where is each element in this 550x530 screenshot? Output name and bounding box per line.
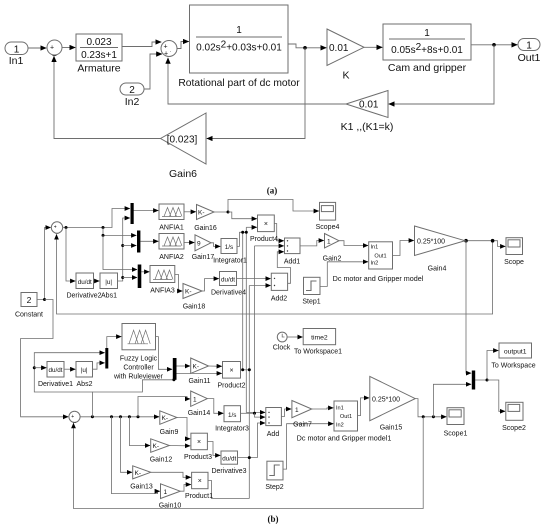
subsystem Dc motor and Gripper model xyxy=(333,242,424,283)
Add2 block xyxy=(271,273,288,302)
svg-text:K-: K- xyxy=(162,415,169,422)
Scope2 block xyxy=(502,402,526,432)
svg-text:K-: K- xyxy=(185,289,192,296)
gain Gain6 triangle xyxy=(161,113,207,180)
wire K1 output to Sum2 bottom xyxy=(168,58,346,104)
wire feedback Gain15 to Sum4 xyxy=(74,417,424,509)
svg-text:1: 1 xyxy=(327,239,331,246)
Scope block xyxy=(504,238,524,266)
svg-text:Out1: Out1 xyxy=(374,254,386,260)
wire V257.5 up into Add in3 xyxy=(258,423,266,458)
wire Step2 to Dc model1 In2 xyxy=(283,424,333,469)
wire Gain16 to Scope4 xyxy=(214,200,319,213)
node Integrator1 join xyxy=(245,231,248,234)
wire Gain2 to Dc model In1 xyxy=(339,241,368,246)
wire riser to Gain14 xyxy=(138,397,190,417)
gain Gain2 xyxy=(323,234,342,263)
svg-text:ANFIA1: ANFIA1 xyxy=(159,225,184,232)
wire Fuzzy out to demux xyxy=(156,337,173,370)
svg-text:Controller: Controller xyxy=(123,365,154,372)
Product4 block xyxy=(250,215,278,243)
Product2 block xyxy=(217,362,245,390)
wire V246.3 to Product4 in2 xyxy=(246,226,256,228)
Clock block xyxy=(273,332,291,351)
wire ANFIA2 to Gain17 xyxy=(184,242,194,244)
svg-text:K1 ,,(K1=k): K1 ,,(K1=k) xyxy=(341,121,394,133)
gain Gain17 xyxy=(192,235,215,261)
ANFIA3 block xyxy=(150,266,175,295)
ANFIA1 block xyxy=(159,204,184,232)
svg-text:(b): (b) xyxy=(268,514,279,524)
Step1 block xyxy=(302,277,320,305)
long vertical net V246.3 Product4 in2 and Add in1 xyxy=(246,227,265,412)
Abs1 block xyxy=(100,273,118,300)
svg-text:[0.023]: [0.023] xyxy=(167,135,198,146)
Constant block xyxy=(15,293,43,319)
time2 To Workspace1 block xyxy=(294,329,342,356)
wire fuzzy mux out to Fuzzy controller xyxy=(107,337,122,348)
wire Gain6 output to Sum1 bottom xyxy=(54,56,161,138)
long vertical net V249.3 Add2 in2 xyxy=(248,286,250,499)
svg-text:Step1: Step1 xyxy=(302,299,320,306)
wire feedback to Sum3 bottom xyxy=(57,234,493,314)
summing junction Sum3 xyxy=(51,222,62,235)
svg-text:1: 1 xyxy=(424,28,430,39)
summing junction Sum1 xyxy=(47,40,62,57)
svg-text:Out1: Out1 xyxy=(340,414,352,420)
node V242.7 top xyxy=(241,231,244,234)
Product1 block xyxy=(185,472,213,500)
wire Integrator1 output joins vertical net xyxy=(237,232,246,246)
svg-text:K-: K- xyxy=(198,210,205,217)
wire Gain11 to Product2 in1 xyxy=(209,365,222,367)
wire Mux3 to ANFIA3 xyxy=(141,271,149,273)
node error branch up xyxy=(91,415,94,418)
node Deriv3 out xyxy=(248,456,251,459)
wire V254.5 corner into Add in2 xyxy=(255,413,266,417)
gain Gain11 xyxy=(188,358,210,385)
svg-text:1: 1 xyxy=(164,489,168,496)
node Sum3 out xyxy=(65,226,68,229)
node on Cam output xyxy=(492,43,496,47)
wire node to Gain6 input xyxy=(207,48,305,139)
node mux out xyxy=(486,379,489,382)
svg-text:K: K xyxy=(342,70,349,82)
wire demux out1 to Gain11 xyxy=(177,365,191,367)
gain Gain15 xyxy=(370,376,415,431)
wire Cam block to Out1 xyxy=(471,44,517,46)
svg-text:1: 1 xyxy=(526,41,532,52)
mux output right xyxy=(472,371,475,390)
gain Gain16 xyxy=(194,205,217,233)
wire Add2 out to Add1 in3 xyxy=(277,252,290,283)
svg-text:du/dt: du/dt xyxy=(221,277,235,284)
wire Product4 out to Add1 in1 xyxy=(274,224,284,241)
svg-text:Gain4: Gain4 xyxy=(428,266,447,273)
Armature transfer function block xyxy=(76,34,122,75)
svg-text:In2: In2 xyxy=(371,261,379,267)
wire Gain15 up to right mux in2 xyxy=(433,384,471,417)
svg-text:+: + xyxy=(164,44,168,51)
wire e down to Mux2 in1 xyxy=(103,228,136,236)
long vertical net V242.7 xyxy=(242,232,244,369)
wire Integrator3 out joins V254.5 xyxy=(241,412,255,414)
wire Cam output down to gain K1 xyxy=(389,45,494,104)
svg-text:In2: In2 xyxy=(125,96,140,108)
svg-text:1: 1 xyxy=(236,25,242,36)
svg-text:Gain10: Gain10 xyxy=(159,502,182,509)
svg-text:Constant: Constant xyxy=(15,312,43,319)
svg-text:Gain12: Gain12 xyxy=(150,457,173,464)
svg-text:Add: Add xyxy=(267,431,280,438)
svg-text:|u|: |u| xyxy=(105,279,112,286)
wire Gain17 to Integrator1 xyxy=(211,243,220,247)
svg-text:K-: K- xyxy=(135,470,142,477)
wire Abs1 net to Mux3 in2 xyxy=(123,277,137,279)
svg-text:2: 2 xyxy=(27,295,32,305)
wire Dc model Out1 to Gain4 xyxy=(393,241,414,256)
svg-text:Scope4: Scope4 xyxy=(316,224,340,231)
wire Step1 to Dc model In2 xyxy=(320,262,368,287)
node Integrator3 join xyxy=(253,412,256,415)
wire Gain18 to Derivative4 xyxy=(202,279,219,291)
Derivative4 block xyxy=(211,272,246,297)
wire Constant to Sum4 (lower sum) xyxy=(21,300,69,417)
svg-text:Product3: Product3 xyxy=(184,454,212,461)
Add block xyxy=(266,408,282,439)
node Gain4 out B xyxy=(491,239,495,243)
wire Gain12 to Product3 in2 xyxy=(169,445,190,447)
wire riser down to Gain12 xyxy=(129,417,150,446)
wire error net loop to demux bottom xyxy=(92,380,173,392)
svg-text:Dc motor and Gripper model: Dc motor and Gripper model xyxy=(333,274,424,283)
svg-text:0.25*100: 0.25*100 xyxy=(372,396,400,403)
ANFIA2 block xyxy=(159,234,184,262)
gain Gain12 xyxy=(150,439,173,464)
svg-text:Gain18: Gain18 xyxy=(183,304,206,311)
svg-text:Armature: Armature xyxy=(77,63,120,75)
gain Gain7 xyxy=(292,401,312,429)
svg-text:1: 1 xyxy=(14,45,20,56)
svg-text:Gain7: Gain7 xyxy=(293,422,312,429)
wire Sum3 output main xyxy=(63,209,130,228)
wire Add out to Gain7 xyxy=(281,409,291,417)
wire Gain16 to Product4 in1 xyxy=(228,212,257,219)
svg-text:Dc motor and Gripper model1: Dc motor and Gripper model1 xyxy=(297,434,392,443)
gain Gain13 xyxy=(130,466,153,491)
svg-text:+: + xyxy=(164,51,168,58)
wire V254.5 to Add1 in2 xyxy=(255,245,284,247)
gain K1 triangle xyxy=(341,91,394,134)
Product3 block xyxy=(184,433,212,461)
wire Product3 out to Derivative3 xyxy=(207,442,220,456)
svg-text:Gain14: Gain14 xyxy=(188,410,211,417)
svg-text:Gain17: Gain17 xyxy=(192,254,215,261)
gain Gain9 xyxy=(160,411,179,436)
wire Gain9 to Product3 in1 xyxy=(177,418,190,439)
gain Gain10 xyxy=(159,484,182,510)
svg-text:1/s: 1/s xyxy=(228,412,236,419)
svg-text:0.023: 0.023 xyxy=(86,37,111,48)
wire Sum2 to Rotational block xyxy=(177,42,189,49)
svg-text:_: _ xyxy=(52,50,57,57)
svg-text:Gain2: Gain2 xyxy=(323,256,342,263)
node P2 out a xyxy=(241,368,244,371)
node Derivative1 tap xyxy=(33,366,36,369)
svg-text:Gain6: Gain6 xyxy=(169,168,197,180)
In2 port oval xyxy=(120,83,144,108)
svg-text:Product4: Product4 xyxy=(250,236,278,243)
wire Armature to Sum2 xyxy=(122,42,161,47)
demux fuzzy output xyxy=(173,358,177,380)
svg-text:with Ruleviewer: with Ruleviewer xyxy=(113,374,164,381)
wire Add1 out to Gain2 xyxy=(300,241,324,246)
svg-text:Out1: Out1 xyxy=(518,52,541,64)
wire V249.3 to Add2 in2 xyxy=(249,285,270,287)
svg-text:Gain9: Gain9 xyxy=(160,429,179,436)
svg-text:K-: K- xyxy=(193,364,200,371)
svg-text:.: . xyxy=(170,48,171,54)
wire Constant to Sum3 xyxy=(37,228,51,300)
wire Gain10 to Product1 in2 xyxy=(180,485,191,492)
svg-text:Integrator3: Integrator3 xyxy=(215,426,249,433)
wire Abs1 net to Mux2 in2 xyxy=(123,245,137,247)
wire Derivative3 out to vertical xyxy=(238,457,258,459)
svg-text:Cam and gripper: Cam and gripper xyxy=(388,62,467,74)
svg-text:Gain13: Gain13 xyxy=(130,484,153,491)
wire Derivative4 to Add2 in1 xyxy=(237,278,271,280)
node Gain13 riser xyxy=(119,415,122,418)
svg-text:Derivative3: Derivative3 xyxy=(211,468,246,475)
Derivative1 block xyxy=(38,362,73,389)
node at demux bottom xyxy=(172,378,175,381)
svg-text:Product1: Product1 xyxy=(185,493,213,500)
wire Abs1 output up to Mux1 in2 xyxy=(118,218,130,281)
gain Gain18 xyxy=(183,284,206,311)
gain K triangle xyxy=(327,29,364,82)
svg-text:Add2: Add2 xyxy=(271,296,287,303)
svg-text:Gain11: Gain11 xyxy=(188,378,210,385)
mux Mux2 xyxy=(137,231,140,253)
wire ANFIA1 to Gain16 xyxy=(184,211,196,213)
wire Gain15 out to Scope1 xyxy=(415,399,446,417)
svg-text:×: × xyxy=(229,368,233,375)
svg-text:Step2: Step2 xyxy=(265,484,283,491)
svg-text:du/dt: du/dt xyxy=(222,456,236,463)
svg-text:Scope1: Scope1 xyxy=(444,431,468,438)
Fuzzy Logic Controller block xyxy=(113,324,164,381)
wire gain K to Cam block xyxy=(364,46,382,48)
node P2 out b xyxy=(248,368,251,371)
svg-text:K-: K- xyxy=(153,443,160,450)
svg-text:To Workspace1: To Workspace1 xyxy=(294,349,342,356)
svg-text:Add1: Add1 xyxy=(284,259,300,266)
wire right mux out to output1 xyxy=(475,351,498,381)
node on Rotational output xyxy=(303,46,307,50)
node Gain12 riser xyxy=(128,415,131,418)
svg-text:Scope: Scope xyxy=(504,259,524,266)
Scope4 block xyxy=(316,202,340,231)
mux fuzzy input xyxy=(105,348,108,369)
svg-text:In1: In1 xyxy=(371,245,379,251)
wire Gain4 out to Scope xyxy=(465,241,505,247)
node Gain16 out xyxy=(227,211,230,214)
node Abs1 net 2 xyxy=(121,276,124,279)
wire Sum1 to Armature xyxy=(62,47,75,49)
Integrator1 block xyxy=(213,239,247,265)
svg-text:Clock: Clock xyxy=(273,345,291,352)
svg-text:Abs2: Abs2 xyxy=(77,381,93,388)
wire Gain4 down to right mux in1 xyxy=(466,241,471,373)
svg-text:In2: In2 xyxy=(336,423,344,429)
svg-text:time2: time2 xyxy=(311,335,328,342)
Step2 block xyxy=(265,461,283,491)
Add1 block xyxy=(284,238,300,266)
Rotational part of dc motor block xyxy=(178,5,300,89)
Scope1 block xyxy=(444,408,468,438)
svg-text:2: 2 xyxy=(129,85,135,96)
wire Mux2 to ANFIA2 xyxy=(141,240,159,242)
svg-text:ANFIA3: ANFIA3 xyxy=(150,288,175,295)
wire e down to Derivative2 xyxy=(66,228,75,282)
svg-text:Gain16: Gain16 xyxy=(194,225,217,232)
svg-text:Product2: Product2 xyxy=(217,383,245,390)
wire riser down to Gain13 xyxy=(121,417,133,473)
wire Rotational to gain K with node xyxy=(288,44,326,48)
svg-text:Rotational part of dc motor: Rotational part of dc motor xyxy=(178,78,300,89)
wire In2 to Sum2 xyxy=(144,54,162,89)
svg-text:Derivative1: Derivative1 xyxy=(38,381,73,388)
svg-text:Abs1: Abs1 xyxy=(101,293,117,300)
svg-text:0.05s2+8s+0.01: 0.05s2+8s+0.01 xyxy=(391,42,463,56)
svg-text:1/s: 1/s xyxy=(225,244,233,251)
Derivative2 block xyxy=(66,273,101,300)
svg-text:1: 1 xyxy=(193,397,197,404)
svg-text:0.01: 0.01 xyxy=(329,43,349,54)
wire error up-left to mux and Derivative1 xyxy=(34,353,104,417)
svg-text:To Workspace: To Workspace xyxy=(491,363,535,370)
mux Mux3 xyxy=(138,265,142,289)
wire Abs2 to fuzzy mux in2 xyxy=(93,363,105,369)
In1 port oval xyxy=(5,42,28,67)
wire Product2 out to vertical nets xyxy=(241,369,251,371)
wire In1 to Sum1 xyxy=(28,47,46,49)
wire Clock to time2 xyxy=(287,336,303,338)
Integrator3 block xyxy=(215,406,249,433)
output1 To Workspace block xyxy=(491,343,535,370)
wire riser down to Gain10 xyxy=(112,417,160,494)
mux Mux1 xyxy=(131,203,134,224)
wire Gain13 to Product1 in1 xyxy=(151,472,191,477)
svg-text:1: 1 xyxy=(295,407,299,414)
svg-text:Scope2: Scope2 xyxy=(502,425,526,432)
node e to mux verticals xyxy=(102,226,105,229)
svg-text:0.25*100: 0.25*100 xyxy=(417,238,445,245)
wire demux out2 to Product2 in2 xyxy=(177,372,222,374)
svg-text:×: × xyxy=(197,439,201,446)
node Gain4 out A xyxy=(464,239,468,243)
Out1 port oval xyxy=(518,39,541,65)
svg-text:Integrator1: Integrator1 xyxy=(213,258,247,265)
wire Sum4 output to Gain9 xyxy=(80,416,159,418)
wire Derivative1 to Abs2 xyxy=(64,368,75,370)
wire Dc model1 Out1 to Gain15 xyxy=(358,398,370,416)
svg-text:In1: In1 xyxy=(336,406,344,412)
svg-text:Derivative2: Derivative2 xyxy=(66,293,101,300)
wire Gain14 to Integrator3 xyxy=(207,399,223,414)
wire Gain7 to Dc model1 In1 xyxy=(312,408,334,409)
node xyxy=(102,234,105,237)
wire Mux1 to ANFIA1 xyxy=(134,210,159,212)
long vertical net V254.5 Add1 in2 xyxy=(254,246,256,413)
summing junction Sum2 xyxy=(161,41,177,58)
node Gain14 riser xyxy=(137,415,140,418)
svg-text:(a): (a) xyxy=(267,186,278,196)
svg-text:0.01: 0.01 xyxy=(359,100,379,111)
svg-text:ANFIA2: ANFIA2 xyxy=(159,254,184,261)
Cam and gripper block xyxy=(383,24,471,74)
svg-text:9: 9 xyxy=(197,241,201,248)
node Abs1 net xyxy=(121,244,124,247)
svg-text:Gain15: Gain15 xyxy=(380,425,403,432)
wire ANFIA3 to Gain18 xyxy=(175,275,183,292)
subsystem Dc motor and Gripper model1 xyxy=(297,401,392,443)
wire e down to Mux3 in1 xyxy=(103,235,137,269)
svg-text:Derivative4: Derivative4 xyxy=(211,290,246,297)
node Gain15 out b xyxy=(432,415,435,418)
svg-text:du/dt: du/dt xyxy=(78,279,92,286)
gain Gain14 xyxy=(188,391,211,417)
wire Derivative2 to Abs1 xyxy=(94,280,100,282)
wire tap to Derivative1 xyxy=(34,367,46,369)
wire Product1 out loop to net xyxy=(208,481,249,499)
svg-text:Fuzzy Logic: Fuzzy Logic xyxy=(120,356,158,363)
gain Gain4 xyxy=(415,226,466,273)
svg-text:output1: output1 xyxy=(504,349,527,356)
Abs2 block xyxy=(76,362,93,389)
node on Constant output xyxy=(43,298,46,301)
Derivative3 block xyxy=(211,451,246,475)
svg-text:|u|: |u| xyxy=(81,367,88,374)
svg-text:×: × xyxy=(198,478,202,485)
node Gain10 riser xyxy=(110,415,113,418)
svg-text:0.23s+1: 0.23s+1 xyxy=(81,50,117,61)
svg-text:×: × xyxy=(264,221,268,228)
wire mux out down to Scope2 xyxy=(487,380,505,411)
svg-text:du/dt: du/dt xyxy=(48,367,62,374)
svg-text:0.02s2+0.03s+0.01: 0.02s2+0.03s+0.01 xyxy=(196,40,282,54)
node Gain15 out a xyxy=(422,415,425,418)
svg-text:In1: In1 xyxy=(9,55,24,67)
summing junction Sum4 xyxy=(69,411,80,424)
